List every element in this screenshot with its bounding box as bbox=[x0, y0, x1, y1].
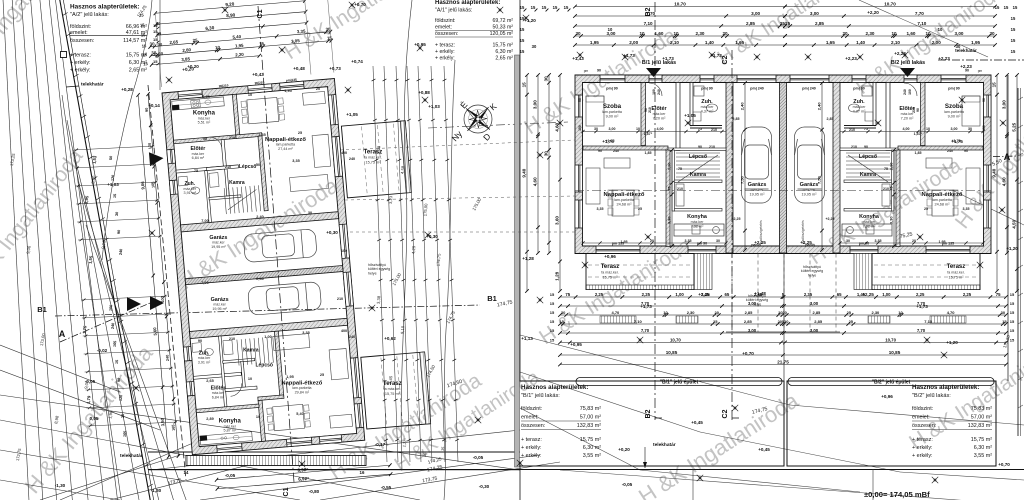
svg-text:1,95: 1,95 bbox=[286, 375, 293, 379]
svg-text:3,30: 3,30 bbox=[888, 216, 893, 225]
svg-text:lam.parketta: lam.parketta bbox=[944, 110, 964, 114]
svg-text:240: 240 bbox=[111, 323, 116, 330]
svg-text:+2,25: +2,25 bbox=[825, 217, 834, 221]
svg-text:10: 10 bbox=[608, 27, 613, 32]
svg-text:+0,73: +0,73 bbox=[329, 66, 341, 71]
svg-text:75: 75 bbox=[864, 127, 868, 131]
svg-text:9,06: 9,06 bbox=[140, 181, 146, 190]
svg-text:Hasznos alapterületek:: Hasznos alapterületek: bbox=[70, 4, 140, 11]
svg-text:75,83 m²: 75,83 m² bbox=[971, 406, 992, 412]
svg-text:2,85: 2,85 bbox=[746, 21, 755, 26]
svg-text:75: 75 bbox=[698, 127, 702, 131]
svg-text:15: 15 bbox=[520, 5, 525, 10]
bar B/2 epulet bbox=[788, 378, 994, 386]
svg-text:240: 240 bbox=[947, 149, 953, 153]
svg-text:máz.ker: máz.ker bbox=[803, 188, 817, 192]
svg-text:90|210: 90|210 bbox=[219, 83, 229, 88]
svg-text:1,95: 1,95 bbox=[284, 89, 291, 93]
svg-text:2,85: 2,85 bbox=[814, 319, 823, 324]
svg-text:15: 15 bbox=[1011, 38, 1016, 43]
svg-text:3,00: 3,00 bbox=[951, 127, 958, 131]
svg-text:47,61 m²: 47,61 m² bbox=[126, 30, 147, 36]
svg-text:pm: pm bbox=[978, 69, 983, 73]
svg-text:30: 30 bbox=[121, 414, 125, 419]
svg-text:30: 30 bbox=[532, 44, 537, 49]
svg-text:65: 65 bbox=[725, 292, 730, 297]
svg-text:Lépcső: Lépcső bbox=[859, 154, 877, 160]
svg-text:Kamra: Kamra bbox=[690, 172, 706, 178]
svg-text:-0,55: -0,55 bbox=[381, 485, 392, 490]
boundary gray band x518 bbox=[515, 55, 520, 467]
mid vertical chains bbox=[373, 66, 387, 462]
svg-text:3,00: 3,00 bbox=[1002, 100, 1007, 109]
svg-text:4,25: 4,25 bbox=[411, 245, 417, 254]
svg-text:2,40: 2,40 bbox=[739, 102, 744, 111]
svg-text:100: 100 bbox=[652, 89, 656, 95]
svg-text:2,30: 2,30 bbox=[696, 31, 705, 36]
svg-text:0,05: 0,05 bbox=[90, 416, 99, 421]
svg-text:+2,20: +2,20 bbox=[867, 10, 879, 15]
svg-text:+ erkély:: + erkély: bbox=[912, 445, 933, 451]
svg-text:helye: helye bbox=[808, 273, 817, 277]
svg-text:+0,74: +0,74 bbox=[351, 59, 363, 64]
svg-text:15: 15 bbox=[550, 338, 555, 343]
terrace A/2 bbox=[361, 352, 431, 429]
svg-text:6,30 m²: 6,30 m² bbox=[495, 49, 513, 55]
svg-text:69,72 m²: 69,72 m² bbox=[493, 18, 514, 24]
svg-text:210: 210 bbox=[851, 145, 857, 149]
svg-text:75: 75 bbox=[996, 292, 1001, 297]
svg-text:15: 15 bbox=[550, 328, 555, 333]
svg-text:14: 14 bbox=[184, 470, 189, 475]
svg-text:1,60: 1,60 bbox=[655, 31, 664, 36]
section line C2 bbox=[731, 50, 733, 420]
svg-text:15: 15 bbox=[520, 38, 525, 43]
svg-text:4,37 m²: 4,37 m² bbox=[853, 110, 867, 114]
svg-text:15: 15 bbox=[153, 37, 158, 42]
svg-text:19,95 m²: 19,95 m² bbox=[212, 307, 227, 311]
svg-text:20: 20 bbox=[784, 319, 789, 324]
svg-text:165: 165 bbox=[113, 341, 118, 348]
svg-text:2,00: 2,00 bbox=[932, 40, 941, 45]
svg-text:27,44 m²: 27,44 m² bbox=[278, 147, 293, 151]
svg-text:19,95 m²: 19,95 m² bbox=[802, 193, 818, 197]
svg-text:1,40: 1,40 bbox=[856, 40, 865, 45]
svg-text:+0,70: +0,70 bbox=[998, 462, 1010, 467]
svg-text:132,83 m²: 132,83 m² bbox=[577, 423, 601, 429]
svg-text:50: 50 bbox=[256, 163, 260, 167]
svg-text:8,90: 8,90 bbox=[226, 12, 236, 18]
svg-text:+1,20: +1,20 bbox=[1006, 246, 1018, 251]
svg-text:1,40: 1,40 bbox=[705, 40, 714, 45]
svg-text:3,35: 3,35 bbox=[302, 331, 309, 335]
svg-text:30: 30 bbox=[1001, 310, 1006, 315]
svg-text:30: 30 bbox=[575, 31, 581, 36]
svg-text:1,95: 1,95 bbox=[621, 240, 628, 244]
svg-text:1,85: 1,85 bbox=[645, 151, 652, 155]
svg-text:5,40: 5,40 bbox=[296, 412, 303, 416]
svg-text:2,35: 2,35 bbox=[804, 292, 813, 297]
svg-text:4,60: 4,60 bbox=[533, 177, 538, 186]
svg-text:+0,20: +0,20 bbox=[618, 447, 630, 452]
svg-text:emelet:: emelet: bbox=[70, 30, 88, 36]
svg-text:pm 90: pm 90 bbox=[697, 242, 707, 246]
svg-text:165: 165 bbox=[171, 424, 176, 431]
svg-text:20: 20 bbox=[316, 87, 320, 91]
svg-text:3,30: 3,30 bbox=[666, 216, 671, 225]
svg-text:15: 15 bbox=[153, 52, 158, 57]
svg-text:4,60: 4,60 bbox=[1002, 177, 1007, 186]
svg-text:15: 15 bbox=[1011, 16, 1016, 21]
svg-text:7,70: 7,70 bbox=[917, 328, 926, 333]
svg-text:6,30 m²: 6,30 m² bbox=[583, 445, 601, 451]
svg-text:4,70: 4,70 bbox=[947, 310, 956, 315]
svg-text:30: 30 bbox=[846, 239, 850, 243]
svg-text:3,35: 3,35 bbox=[297, 29, 306, 35]
svg-text:7,32 m²: 7,32 m² bbox=[863, 225, 877, 229]
svg-text:+0,95: +0,95 bbox=[570, 342, 582, 347]
svg-text:telekhatár: telekhatár bbox=[955, 48, 977, 53]
svg-text:100: 100 bbox=[109, 305, 114, 312]
svg-text:7,32 m²: 7,32 m² bbox=[691, 225, 705, 229]
svg-text:összesen:: összesen: bbox=[521, 423, 545, 429]
svg-text:3,91 m²: 3,91 m² bbox=[198, 360, 211, 364]
svg-text:-0,05: -0,05 bbox=[85, 379, 96, 384]
svg-text:25: 25 bbox=[298, 131, 302, 135]
svg-text:132,83 m²: 132,83 m² bbox=[968, 423, 992, 429]
svg-text:15,75 m²: 15,75 m² bbox=[493, 43, 514, 49]
svg-text:15: 15 bbox=[1010, 301, 1015, 306]
svg-text:pm: pm bbox=[584, 69, 589, 73]
svg-text:3,23: 3,23 bbox=[388, 195, 394, 204]
svg-text:2,25: 2,25 bbox=[963, 292, 972, 297]
svg-text:+0,28: +0,28 bbox=[121, 87, 133, 92]
svg-text:120: 120 bbox=[119, 395, 124, 402]
svg-text:3,35: 3,35 bbox=[597, 207, 604, 211]
svg-text:+1,05: +1,05 bbox=[684, 113, 696, 118]
svg-text:2,40: 2,40 bbox=[256, 277, 263, 281]
svg-text:3,00: 3,00 bbox=[955, 31, 964, 36]
svg-text:1,95: 1,95 bbox=[235, 43, 244, 49]
svg-text:10,70: 10,70 bbox=[884, 1, 896, 6]
svg-text:6,92⁵: 6,92⁵ bbox=[298, 476, 309, 482]
svg-text:90: 90 bbox=[203, 137, 207, 141]
svg-text:15,75 m²: 15,75 m² bbox=[971, 437, 992, 443]
svg-text:2,65: 2,65 bbox=[169, 39, 178, 45]
svg-text:210: 210 bbox=[711, 128, 717, 132]
svg-text:"B/1" jelű lakás:: "B/1" jelű lakás: bbox=[521, 393, 560, 399]
svg-text:+0,48: +0,48 bbox=[293, 66, 305, 71]
svg-text:240: 240 bbox=[903, 89, 907, 95]
svg-text:7,10: 7,10 bbox=[917, 21, 926, 26]
svg-text:240: 240 bbox=[119, 249, 124, 256]
svg-text:7,10: 7,10 bbox=[924, 319, 933, 324]
svg-text:15: 15 bbox=[995, 5, 1000, 10]
svg-text:9,40: 9,40 bbox=[992, 168, 997, 177]
svg-text:+1,73: +1,73 bbox=[640, 304, 652, 309]
svg-text:B2: B2 bbox=[645, 409, 652, 418]
svg-text:1,75: 1,75 bbox=[82, 325, 88, 334]
svg-text:emelet:: emelet: bbox=[521, 415, 539, 421]
svg-text:150: 150 bbox=[578, 125, 582, 131]
svg-text:3,00: 3,00 bbox=[751, 11, 760, 16]
svg-text:30: 30 bbox=[115, 212, 119, 217]
plinth band below left building bbox=[186, 456, 366, 466]
svg-text:"B/2" jelű épület: "B/2" jelű épület bbox=[872, 380, 911, 386]
svg-text:90: 90 bbox=[578, 98, 582, 102]
svg-text:90: 90 bbox=[117, 378, 121, 383]
svg-text:Terasz: Terasz bbox=[601, 264, 620, 270]
svg-text:9,20: 9,20 bbox=[225, 1, 235, 7]
svg-text:210: 210 bbox=[849, 128, 855, 132]
site survey lines left strip bbox=[2, 0, 188, 500]
svg-text:"B/1" jelű épület: "B/1" jelű épület bbox=[660, 380, 699, 386]
svg-text:+2,23: +2,23 bbox=[845, 56, 857, 61]
svg-text:3,55 m²: 3,55 m² bbox=[974, 453, 992, 459]
svg-text:lam.parketta: lam.parketta bbox=[602, 110, 622, 114]
svg-text:1,95: 1,95 bbox=[971, 40, 980, 45]
svg-text:10,85: 10,85 bbox=[666, 350, 678, 355]
svg-text:15: 15 bbox=[520, 49, 525, 54]
bar B/1 epulet bbox=[576, 378, 782, 386]
svg-text:15: 15 bbox=[564, 5, 569, 10]
svg-text:75: 75 bbox=[678, 167, 682, 171]
svg-text:+0,45: +0,45 bbox=[691, 420, 703, 425]
svg-text:24,68 m²: 24,68 m² bbox=[935, 203, 951, 207]
svg-text:7,10: 7,10 bbox=[634, 319, 643, 324]
svg-text:100: 100 bbox=[341, 249, 347, 253]
svg-text:3,00: 3,00 bbox=[748, 301, 757, 306]
svg-text:400: 400 bbox=[341, 329, 347, 333]
svg-text:+ erkély:: + erkély: bbox=[435, 49, 455, 55]
svg-text:10,70: 10,70 bbox=[674, 1, 686, 6]
svg-text:+1,48: +1,48 bbox=[754, 291, 766, 296]
svg-text:19,95 m²: 19,95 m² bbox=[750, 193, 766, 197]
svg-text:1,95: 1,95 bbox=[939, 240, 946, 244]
svg-text:+ terasz:: + terasz: bbox=[912, 437, 933, 443]
svg-text:máz.ker: máz.ker bbox=[653, 112, 667, 116]
svg-text:2,20: 2,20 bbox=[235, 52, 244, 58]
svg-text:2,10: 2,10 bbox=[889, 162, 894, 171]
svg-text:+1,73: +1,73 bbox=[662, 56, 674, 61]
svg-text:20: 20 bbox=[782, 310, 787, 315]
svg-text:25: 25 bbox=[638, 207, 642, 211]
svg-text:210: 210 bbox=[677, 187, 683, 191]
svg-text:Hasznos alapterületek:: Hasznos alapterületek: bbox=[912, 384, 979, 391]
svg-text:10,70: 10,70 bbox=[885, 337, 896, 342]
svg-text:6,84 m²: 6,84 m² bbox=[212, 395, 225, 399]
svg-text:1,35: 1,35 bbox=[258, 133, 265, 137]
svg-text:Hasznos alapterületek:: Hasznos alapterületek: bbox=[435, 0, 500, 6]
svg-text:földszint:: földszint: bbox=[435, 18, 455, 24]
svg-text:3,50: 3,50 bbox=[160, 417, 166, 426]
svg-text:2,10: 2,10 bbox=[667, 162, 672, 171]
svg-text:1,65: 1,65 bbox=[826, 40, 835, 45]
svg-text:földszint:: földszint: bbox=[521, 406, 542, 412]
svg-text:+ terasz:: + terasz: bbox=[70, 53, 91, 59]
svg-text:2,65 m²: 2,65 m² bbox=[129, 68, 147, 74]
svg-text:15,75 m²: 15,75 m² bbox=[126, 53, 147, 59]
svg-text:2,30: 2,30 bbox=[866, 31, 875, 36]
svg-text:240: 240 bbox=[349, 335, 355, 339]
svg-text:Kamra: Kamra bbox=[243, 347, 259, 353]
svg-text:pm| 90: pm| 90 bbox=[853, 87, 864, 91]
svg-text:25: 25 bbox=[924, 207, 928, 211]
svg-text:90: 90 bbox=[198, 339, 202, 343]
svg-text:2,30: 2,30 bbox=[687, 310, 696, 315]
svg-text:-0,17: -0,17 bbox=[375, 442, 386, 447]
svg-text:+2,25: +2,25 bbox=[731, 217, 740, 221]
svg-text:1,00: 1,00 bbox=[675, 292, 684, 297]
dimension rows below right building bbox=[560, 296, 1006, 298]
svg-text:4,00: 4,00 bbox=[903, 127, 910, 131]
svg-text:75,83 m²: 75,83 m² bbox=[580, 406, 601, 412]
svg-text:emelet:: emelet: bbox=[912, 415, 930, 421]
svg-text:9,10: 9,10 bbox=[400, 325, 406, 334]
svg-text:25: 25 bbox=[320, 373, 324, 377]
svg-text:5,87 m²: 5,87 m² bbox=[224, 428, 237, 432]
svg-text:máz.ker: máz.ker bbox=[701, 105, 715, 109]
svg-text:3,00: 3,00 bbox=[533, 100, 538, 109]
terrace B/1 bbox=[588, 264, 692, 266]
svg-text:90: 90 bbox=[597, 69, 601, 73]
svg-text:2,00: 2,00 bbox=[629, 40, 638, 45]
svg-text:15: 15 bbox=[153, 59, 158, 64]
svg-text:15: 15 bbox=[1004, 5, 1009, 10]
svg-text:19,95 m²: 19,95 m² bbox=[211, 245, 226, 249]
svg-text:3,38: 3,38 bbox=[376, 295, 382, 304]
svg-text:3,35: 3,35 bbox=[963, 207, 970, 211]
svg-text:20: 20 bbox=[912, 239, 916, 243]
svg-text:fa máz.ker.: fa máz.ker. bbox=[947, 271, 965, 275]
svg-text:5,60: 5,60 bbox=[152, 327, 158, 336]
plot boxes bottom bbox=[518, 381, 784, 466]
svg-text:-0,30: -0,30 bbox=[479, 484, 490, 489]
left side dim lines bbox=[74, 146, 155, 150]
svg-text:9,40: 9,40 bbox=[522, 168, 527, 177]
svg-text:210: 210 bbox=[229, 136, 235, 140]
svg-text:3,00: 3,00 bbox=[810, 328, 819, 333]
svg-text:3,00: 3,00 bbox=[609, 127, 616, 131]
svg-text:+1,03: +1,03 bbox=[428, 104, 440, 109]
svg-text:15: 15 bbox=[1011, 49, 1016, 54]
car garage B/1 bbox=[742, 127, 772, 203]
svg-text:1,00: 1,00 bbox=[882, 292, 891, 297]
svg-text:2,65: 2,65 bbox=[202, 95, 209, 99]
svg-text:2,85: 2,85 bbox=[744, 319, 753, 324]
svg-text:30: 30 bbox=[308, 211, 312, 215]
svg-text:210: 210 bbox=[337, 297, 343, 301]
svg-text:3,91 m²: 3,91 m² bbox=[184, 191, 197, 195]
svg-text:Hasznos alapterületek:: Hasznos alapterületek: bbox=[521, 384, 588, 391]
svg-text:30: 30 bbox=[989, 31, 995, 36]
svg-text:B/2 jelű lakás: B/2 jelű lakás bbox=[891, 60, 925, 66]
svg-text:+ terasz:: + terasz: bbox=[521, 437, 542, 443]
svg-text:C1: C1 bbox=[257, 9, 264, 18]
svg-text:+0,95: +0,95 bbox=[414, 42, 426, 47]
svg-text:6,30 m²: 6,30 m² bbox=[129, 60, 147, 66]
svg-text:2,25: 2,25 bbox=[642, 292, 651, 297]
svg-text:90: 90 bbox=[598, 149, 602, 153]
svg-text:2,65: 2,65 bbox=[206, 379, 213, 383]
svg-text:+ erkély:: + erkély: bbox=[70, 68, 91, 74]
svg-text:1,87⁵: 1,87⁵ bbox=[914, 132, 923, 136]
svg-text:"B/2" jelű lakás:: "B/2" jelű lakás: bbox=[912, 393, 951, 399]
svg-text:Lépcső: Lépcső bbox=[239, 164, 257, 170]
svg-text:7,00: 7,00 bbox=[201, 281, 208, 285]
svg-text:7,20 m²: 7,20 m² bbox=[901, 117, 915, 121]
svg-text:6,84 m²: 6,84 m² bbox=[192, 156, 205, 160]
svg-text:90: 90 bbox=[964, 149, 968, 153]
svg-text:4,58: 4,58 bbox=[400, 165, 406, 174]
svg-text:210: 210 bbox=[225, 165, 231, 169]
svg-text:210: 210 bbox=[883, 187, 889, 191]
svg-text:2,85: 2,85 bbox=[733, 117, 740, 121]
svg-text:3,38: 3,38 bbox=[376, 145, 382, 154]
svg-text:15: 15 bbox=[542, 5, 547, 10]
svg-text:15: 15 bbox=[1013, 5, 1018, 10]
svg-text:10,85: 10,85 bbox=[889, 350, 901, 355]
svg-text:15,75 m²: 15,75 m² bbox=[365, 161, 381, 165]
svg-text:240: 240 bbox=[657, 89, 661, 95]
svg-text:210: 210 bbox=[709, 145, 715, 149]
svg-text:B1: B1 bbox=[37, 305, 47, 314]
svg-text:5,40: 5,40 bbox=[232, 34, 241, 40]
svg-text:+ erkély:: + erkély: bbox=[521, 445, 542, 451]
car garage A2 bbox=[248, 281, 322, 315]
svg-text:máz.ker: máz.ker bbox=[853, 105, 867, 109]
svg-text:2,85: 2,85 bbox=[815, 21, 824, 26]
svg-text:20: 20 bbox=[650, 239, 654, 243]
svg-text:+0,43: +0,43 bbox=[252, 72, 264, 77]
svg-text:10,70: 10,70 bbox=[670, 337, 681, 342]
svg-text:3,35: 3,35 bbox=[875, 239, 882, 243]
svg-text:-0,05: -0,05 bbox=[473, 455, 484, 460]
svg-text:57,00 m²: 57,00 m² bbox=[971, 415, 992, 421]
svg-text:-0,05: -0,05 bbox=[225, 473, 236, 478]
svg-text:7,50: 7,50 bbox=[817, 175, 822, 184]
svg-text:15: 15 bbox=[550, 292, 555, 297]
svg-text:15: 15 bbox=[153, 23, 158, 28]
svg-text:C2: C2 bbox=[722, 409, 729, 418]
svg-text:2,10: 2,10 bbox=[670, 40, 679, 45]
svg-text:65: 65 bbox=[837, 292, 842, 297]
svg-text:2,80: 2,80 bbox=[182, 47, 191, 53]
svg-text:6,30: 6,30 bbox=[205, 25, 215, 31]
svg-text:pm| 90: pm| 90 bbox=[948, 87, 959, 91]
svg-text:Kamra: Kamra bbox=[860, 172, 876, 178]
svg-text:-0,80: -0,80 bbox=[309, 489, 320, 494]
svg-text:emelet:: emelet: bbox=[435, 25, 452, 31]
svg-text:+0,30: +0,30 bbox=[426, 234, 438, 239]
car garage A1 bbox=[243, 229, 317, 263]
svg-text:pm| 240: pm| 240 bbox=[750, 87, 763, 91]
svg-text:4,37 m²: 4,37 m² bbox=[701, 110, 715, 114]
svg-text:120,05 m²: 120,05 m² bbox=[490, 31, 514, 37]
svg-text:2,95: 2,95 bbox=[84, 195, 90, 204]
svg-text:7,20 m²: 7,20 m² bbox=[653, 117, 667, 121]
svg-text:15,75 m²: 15,75 m² bbox=[603, 276, 619, 280]
svg-text:1,65: 1,65 bbox=[735, 40, 744, 45]
svg-text:Lépcső: Lépcső bbox=[255, 362, 273, 368]
svg-text:25: 25 bbox=[847, 310, 852, 315]
svg-text:3,00: 3,00 bbox=[810, 11, 819, 16]
svg-text:1,95: 1,95 bbox=[590, 40, 599, 45]
svg-text:15: 15 bbox=[521, 82, 526, 88]
svg-text:2,89: 2,89 bbox=[206, 417, 213, 421]
svg-text:90: 90 bbox=[916, 108, 920, 112]
svg-text:75: 75 bbox=[666, 186, 671, 191]
